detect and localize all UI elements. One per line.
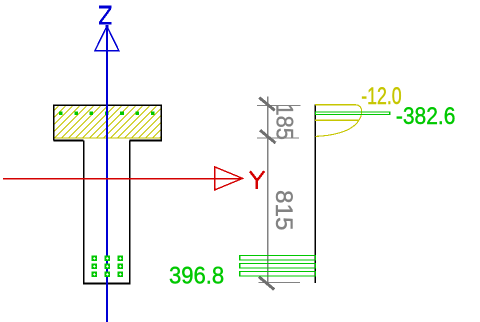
section reference line (black, right diagram) — [314, 105, 316, 284]
extension line bottom — [259, 281, 301, 283]
hatch bottom boundary (yellow line, flange bottom) — [53, 137, 162, 139]
dimension line (gray vertical) — [267, 97, 269, 284]
bottom steel stress bars (green) — [240, 256, 316, 260]
dim tick mid — [260, 130, 275, 143]
svg-text:815: 815 — [270, 190, 297, 231]
concrete stress parabola (yellow) — [316, 105, 362, 137]
bottom rebar markers (green squares with white cores), 3x3 grid — [92, 256, 123, 277]
extension line mid — [257, 137, 299, 139]
web outline (black) — [84, 140, 130, 283]
svg-text:185: 185 — [270, 103, 297, 140]
Z axis apex dot — [105, 25, 108, 28]
concrete hatch lines (yellow 45deg) — [18, 105, 199, 139]
concrete stress top line (yellow) — [315, 104, 356, 106]
Y axis label — [250, 171, 264, 189]
Z axis label — [99, 7, 112, 23]
Y axis arrowhead (red triangle) — [215, 167, 243, 190]
dim tick top — [259, 98, 274, 111]
top rebar dots (green) in flange — [59, 112, 154, 115]
svg-text:396.8: 396.8 — [169, 262, 224, 289]
top steel stress bar (green sliver) — [315, 112, 389, 115]
Y axis line (red) — [3, 178, 242, 180]
extension line top — [257, 105, 301, 107]
dim tick bottom — [259, 277, 274, 290]
Z axis arrowhead (blue triangle) — [95, 26, 119, 51]
flange outline (black) — [54, 105, 162, 140]
concrete stress mid line (yellow) — [315, 119, 358, 121]
Z axis line (blue) — [106, 26, 108, 322]
svg-text:-382.6: -382.6 — [396, 103, 456, 130]
